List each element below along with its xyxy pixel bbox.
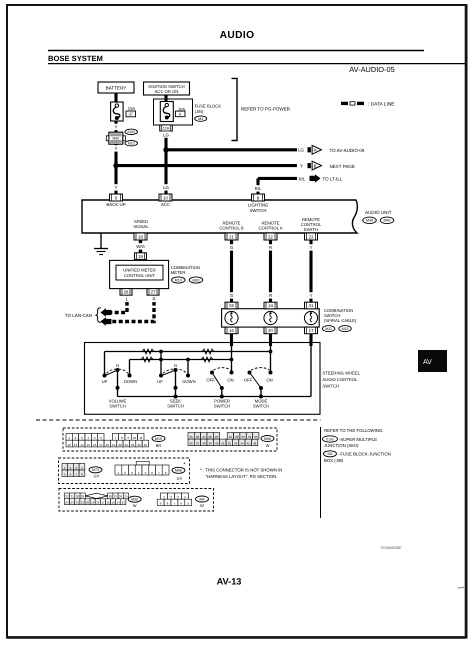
connector detail box row 1 xyxy=(63,428,277,451)
connector face M90 grid xyxy=(188,433,258,446)
battery supply box xyxy=(98,82,134,93)
svg-text:,: , xyxy=(378,218,379,223)
svg-text:17: 17 xyxy=(309,328,314,333)
svg-text:M40: M40 xyxy=(384,219,391,223)
refer-to-PG-POWER bracket xyxy=(232,78,238,140)
wire battery to fuse xyxy=(114,93,117,103)
svg-text:27: 27 xyxy=(151,290,156,295)
svg-text:Y: Y xyxy=(300,163,303,168)
svg-text:N: N xyxy=(174,363,177,368)
resistor R3 xyxy=(141,357,153,362)
svg-text:14: 14 xyxy=(268,303,273,308)
connector oval M15 xyxy=(152,436,165,442)
svg-text:TO LT-ILL: TO LT-ILL xyxy=(323,176,343,181)
svg-text:W: W xyxy=(200,503,204,508)
svg-text:W: W xyxy=(266,443,270,448)
wire SMJ to junction, Y xyxy=(114,144,117,167)
svg-text:26: 26 xyxy=(119,495,123,499)
svg-text:23: 23 xyxy=(71,501,75,505)
svg-text:UP: UP xyxy=(157,379,163,384)
combination meter pin 28 xyxy=(120,289,132,296)
wire rail1 down to volume up contact xyxy=(104,352,106,376)
connector oval M90 xyxy=(261,436,274,442)
svg-text:FUSE BLOCK: FUSE BLOCK xyxy=(195,103,222,108)
svg-text:42: 42 xyxy=(228,442,232,446)
svg-text:AV-13: AV-13 xyxy=(217,577,242,587)
svg-text:R: R xyxy=(269,245,272,250)
svg-text:LG: LG xyxy=(163,132,169,137)
fuse block J/B outline xyxy=(154,99,193,125)
svg-text:32: 32 xyxy=(65,495,69,499)
svg-text:18: 18 xyxy=(106,443,110,447)
svg-text:AUDIO CONTROL: AUDIO CONTROL xyxy=(323,377,359,382)
svg-text:Y: Y xyxy=(115,146,118,151)
svg-text:-FUSE BLOCK-JUNCTION: -FUSE BLOCK-JUNCTION xyxy=(339,451,391,456)
svg-text:10A: 10A xyxy=(178,106,185,111)
svg-text:LG: LG xyxy=(298,148,304,153)
svg-text:37: 37 xyxy=(128,112,133,117)
audio unit connector oval M39 xyxy=(363,217,377,224)
wire pin 16 into switch box xyxy=(230,334,233,346)
svg-text:44: 44 xyxy=(240,442,244,446)
svg-text:30: 30 xyxy=(76,495,80,499)
combination meter pin 19 xyxy=(135,253,147,260)
spiral cable pin 31 xyxy=(305,302,318,309)
data line R to LAN-CAN xyxy=(110,295,154,321)
svg-text:(J/B): (J/B) xyxy=(195,109,204,114)
svg-text:(SPIRAL CABLE): (SPIRAL CABLE) xyxy=(324,318,357,323)
svg-text:38: 38 xyxy=(202,442,206,446)
svg-text:13: 13 xyxy=(122,501,126,505)
svg-text:20: 20 xyxy=(268,328,273,333)
svg-text:SWITCH: SWITCH xyxy=(109,404,126,409)
spiral cable symbol xyxy=(225,311,238,324)
combination meter oval M20 xyxy=(189,277,203,283)
spiral cable symbol xyxy=(264,311,277,324)
svg-text:14: 14 xyxy=(80,443,84,447)
data line L to LAN-CAN xyxy=(110,295,127,312)
svg-text:R/L: R/L xyxy=(255,186,262,191)
svg-text:TKWM0638E: TKWM0638E xyxy=(380,546,402,550)
ground wire from audio unit xyxy=(100,233,102,249)
wire W/G pin 18 to pin 19 xyxy=(139,240,142,253)
svg-text:AUDIO: AUDIO xyxy=(220,30,255,41)
connector face M73 grid xyxy=(62,464,85,477)
svg-text:25: 25 xyxy=(190,435,194,439)
steering wheel audio control switch box xyxy=(85,343,321,415)
wire R pin 22 to spiral cable pin 14 xyxy=(269,240,272,302)
svg-text:24: 24 xyxy=(65,501,69,505)
svg-text:31: 31 xyxy=(309,303,314,308)
svg-text:SWITCH: SWITCH xyxy=(253,404,270,409)
svg-text:10: 10 xyxy=(133,436,137,440)
svg-text:25: 25 xyxy=(124,495,128,499)
connector oval M60 with asterisk xyxy=(172,467,185,473)
unified meter control unit box xyxy=(116,265,163,280)
svg-text:M39: M39 xyxy=(366,219,373,223)
connector face M20 grid with diamond xyxy=(65,493,86,499)
svg-text:M4: M4 xyxy=(328,452,333,456)
svg-text:28: 28 xyxy=(109,495,113,499)
svg-text:16: 16 xyxy=(106,501,110,505)
svg-text:DOWN: DOWN xyxy=(124,379,137,384)
audio unit pin 10 xyxy=(159,194,172,201)
svg-text:BATTERY: BATTERY xyxy=(106,86,127,91)
J/B output pin 12A xyxy=(160,125,173,131)
svg-text:NEXT PAGE: NEXT PAGE xyxy=(330,164,355,169)
svg-text:Y: Y xyxy=(115,185,118,190)
svg-text:,: , xyxy=(336,326,337,331)
svg-text:37: 37 xyxy=(196,442,200,446)
svg-text:15: 15 xyxy=(111,501,115,505)
audio unit pin 23 xyxy=(305,233,318,240)
arrow A to AV-AUDIO-09 xyxy=(308,145,322,154)
svg-text:JUNCTION (SMJ): JUNCTION (SMJ) xyxy=(324,443,359,448)
svg-text:32: 32 xyxy=(229,303,234,308)
rule under BOSE SYSTEM xyxy=(48,63,466,65)
combination switch oval M22 xyxy=(322,326,335,332)
svg-text:M90: M90 xyxy=(264,437,271,441)
svg-text:M19: M19 xyxy=(175,278,182,282)
svg-text:,: , xyxy=(187,278,188,283)
svg-text:STEERING WHEEL: STEERING WHEEL xyxy=(323,371,361,376)
svg-text:6: 6 xyxy=(179,112,182,117)
wire Y pin 23 to spiral cable pin 31 xyxy=(309,240,312,302)
svg-text:Y: Y xyxy=(115,125,118,130)
svg-text:ON: ON xyxy=(266,378,272,383)
section separator dashed line xyxy=(36,419,321,421)
wire LG from J/B to junction xyxy=(164,131,167,151)
svg-text:26: 26 xyxy=(196,435,200,439)
svg-text:20: 20 xyxy=(86,501,90,505)
volume switch SW1 xyxy=(103,374,107,378)
fuse block connector oval M4 xyxy=(195,116,207,121)
svg-text:COMBINATION: COMBINATION xyxy=(171,265,200,270)
svg-text:ACC OR ON: ACC OR ON xyxy=(155,89,179,94)
svg-text:M20: M20 xyxy=(131,498,138,502)
svg-text:R: R xyxy=(152,297,155,302)
fuse 10A xyxy=(160,102,173,122)
svg-text:23: 23 xyxy=(137,443,141,447)
wire rail2 down to volume down contact xyxy=(129,360,131,376)
svg-text:TO AV-AUDIO-09: TO AV-AUDIO-09 xyxy=(330,148,365,153)
svg-text:35: 35 xyxy=(254,435,258,439)
svg-text:CONTROL A: CONTROL A xyxy=(258,226,282,231)
svg-text:28: 28 xyxy=(124,290,129,295)
combination meter pin 27 xyxy=(147,289,159,296)
svg-text:43: 43 xyxy=(234,442,238,446)
connector face M4 grid xyxy=(161,493,189,499)
svg-text:22: 22 xyxy=(76,501,80,505)
seek switch SW2 xyxy=(159,374,163,378)
svg-text:36: 36 xyxy=(190,442,194,446)
connector face M15 grid xyxy=(66,434,149,447)
wire R/L down to lighting switch pin 8 xyxy=(256,178,259,195)
svg-text:19: 19 xyxy=(112,443,116,447)
svg-text:22: 22 xyxy=(131,443,135,447)
svg-text:DOWN: DOWN xyxy=(182,379,195,384)
svg-text:29: 29 xyxy=(81,495,85,499)
svg-text:13: 13 xyxy=(74,443,78,447)
connector oval M20 xyxy=(128,496,141,502)
svg-text:R: R xyxy=(269,293,272,298)
svg-text:15: 15 xyxy=(87,443,91,447)
svg-text:22: 22 xyxy=(268,234,273,239)
header rule under AUDIO xyxy=(48,50,424,52)
svg-text:19: 19 xyxy=(138,254,143,259)
svg-text:AV: AV xyxy=(423,359,432,366)
data line legend symbol xyxy=(341,102,364,105)
audio unit connector oval M40 xyxy=(380,217,394,224)
svg-text:EARTH: EARTH xyxy=(304,227,318,232)
connector label oval M15 xyxy=(125,141,138,146)
svg-text:Y: Y xyxy=(310,293,313,298)
audio unit pin 18 xyxy=(134,233,147,240)
svg-text:31: 31 xyxy=(229,435,233,439)
svg-text:15A: 15A xyxy=(128,106,136,111)
svg-text:SIGNAL: SIGNAL xyxy=(133,224,149,229)
spiral cable pin 16 xyxy=(225,327,238,334)
refer column divider xyxy=(320,427,322,518)
svg-text:"HARNESS LAYOUT", PG SECTION.: "HARNESS LAYOUT", PG SECTION. xyxy=(206,474,278,479)
svg-text:GY: GY xyxy=(94,474,100,479)
combination meter box xyxy=(110,260,169,288)
svg-text:19: 19 xyxy=(91,501,95,505)
wire pin16 through rails to power on contact xyxy=(231,346,233,373)
svg-text:21: 21 xyxy=(125,443,129,447)
junction node battery Y xyxy=(113,163,118,168)
svg-text:OFF: OFF xyxy=(244,378,253,383)
svg-text:CONTROL B: CONTROL B xyxy=(219,226,243,231)
connector label oval E105 xyxy=(125,129,138,134)
resistor R2 xyxy=(202,349,214,354)
svg-text:14: 14 xyxy=(117,501,121,505)
svg-text:10: 10 xyxy=(163,195,168,200)
connector face M60 grid xyxy=(136,461,149,465)
svg-text:17: 17 xyxy=(99,443,103,447)
svg-text:UNIFIED METER: UNIFIED METER xyxy=(123,268,156,273)
svg-text:BOX (J/B): BOX (J/B) xyxy=(324,458,344,463)
svg-text:40: 40 xyxy=(215,442,219,446)
svg-text:46: 46 xyxy=(253,442,257,446)
wire ignition to fuse block xyxy=(164,95,167,102)
svg-text:W: W xyxy=(133,503,137,508)
svg-text:M20: M20 xyxy=(193,278,200,282)
svg-text:33: 33 xyxy=(241,435,245,439)
wire rail 1 xyxy=(105,351,271,353)
svg-text:41: 41 xyxy=(221,442,225,446)
solid arrow to LT-ILL xyxy=(310,174,321,182)
svg-text:M4: M4 xyxy=(200,497,205,501)
wire fuse to SMJ connector, Y xyxy=(114,121,117,132)
svg-text:GY: GY xyxy=(177,476,183,481)
fuse 15A xyxy=(111,102,124,121)
svg-text:AV-AUDIO-05: AV-AUDIO-05 xyxy=(349,65,394,74)
svg-text:SWITCH: SWITCH xyxy=(250,208,267,213)
svg-text:LG: LG xyxy=(163,185,169,190)
connector detail box row 2 xyxy=(59,458,190,484)
svg-text:M73: M73 xyxy=(92,468,99,472)
arrow to LAN-CAN L xyxy=(100,308,111,316)
junction node LG xyxy=(163,147,168,152)
fuse number 37 box xyxy=(126,111,136,117)
svg-text:M60: M60 xyxy=(175,469,182,473)
combination switch oval M23 xyxy=(339,326,352,332)
audio unit pin 21 xyxy=(225,233,238,240)
svg-text:* : THIS CONNECTOR IS NOT SHOW: * : THIS CONNECTOR IS NOT SHOWN IN xyxy=(200,468,282,473)
svg-text:E105: E105 xyxy=(326,437,334,441)
svg-text:23: 23 xyxy=(309,234,314,239)
power switch SW3 xyxy=(210,371,214,375)
refer M4 oval xyxy=(324,451,337,457)
refer E105 SMJ oval xyxy=(323,436,338,442)
node seek up stub xyxy=(160,352,162,376)
scan artifact mark xyxy=(458,586,465,589)
wire pin 17 into switch box xyxy=(309,334,312,346)
svg-text:Y: Y xyxy=(310,245,313,250)
svg-text:39: 39 xyxy=(209,442,213,446)
wire LG down to audio unit pin 10 xyxy=(164,150,167,195)
svg-text:16: 16 xyxy=(93,443,97,447)
wire R/L horizontal run xyxy=(258,177,297,180)
ignition switch supply box xyxy=(144,82,190,95)
spiral cable symbol xyxy=(304,311,317,324)
svg-text:45: 45 xyxy=(247,442,251,446)
svg-text:AUDIO UNIT: AUDIO UNIT xyxy=(365,210,392,215)
SMJ inline connector E105/M15 xyxy=(106,132,125,144)
svg-text:UP: UP xyxy=(102,379,108,384)
svg-text:16: 16 xyxy=(229,328,234,333)
svg-text:R/L: R/L xyxy=(299,176,306,181)
svg-text:*: * xyxy=(183,462,186,468)
svg-text:OFF: OFF xyxy=(206,378,215,383)
svg-text:B: B xyxy=(314,163,317,168)
AV section tab xyxy=(418,350,447,372)
svg-text:SWITCH: SWITCH xyxy=(214,404,231,409)
svg-text:METER: METER xyxy=(171,270,186,275)
svg-text:M22: M22 xyxy=(325,327,332,331)
connector oval M73 xyxy=(89,467,102,473)
svg-text:M4: M4 xyxy=(198,117,203,121)
arrow B next page xyxy=(308,161,322,170)
svg-text:12A: 12A xyxy=(163,127,170,131)
svg-text:M23: M23 xyxy=(342,327,349,331)
svg-text:BOSE SYSTEM: BOSE SYSTEM xyxy=(48,54,103,63)
svg-text:M15: M15 xyxy=(155,437,162,441)
svg-text:24: 24 xyxy=(144,443,148,447)
fuse number 6 box xyxy=(175,111,185,117)
wire earth from pin 17 xyxy=(310,346,312,397)
svg-text:BACK UP: BACK UP xyxy=(106,202,125,207)
spiral cable pin 14 xyxy=(264,302,277,309)
svg-text:-SUPER MULTIPLE: -SUPER MULTIPLE xyxy=(339,437,377,442)
wire Y down to audio unit pin 6 xyxy=(114,166,117,195)
svg-text:31: 31 xyxy=(71,495,75,499)
svg-text:REFER TO THE FOLLOWING.: REFER TO THE FOLLOWING. xyxy=(324,428,383,433)
svg-text:A: A xyxy=(314,148,317,153)
wire rail 2 xyxy=(130,359,232,361)
svg-text:12: 12 xyxy=(68,443,72,447)
ground symbol xyxy=(94,248,108,250)
svg-text:: DATA LINE: : DATA LINE xyxy=(368,101,394,107)
wire LG horizontal run to arrow A xyxy=(166,148,297,151)
resistor R4 xyxy=(201,357,213,362)
connector detail box row 3 xyxy=(59,489,214,512)
spiral cable pin 17 xyxy=(305,327,318,334)
svg-text:34: 34 xyxy=(248,435,252,439)
svg-text:32: 32 xyxy=(235,435,239,439)
svg-text:28: 28 xyxy=(209,435,213,439)
audio unit U1 outline xyxy=(82,200,357,233)
svg-text:20: 20 xyxy=(118,443,122,447)
svg-text:TO LAN-CAN: TO LAN-CAN xyxy=(65,313,92,318)
combination meter oval M19 xyxy=(172,277,186,283)
svg-text:27: 27 xyxy=(202,435,206,439)
connector oval M4 xyxy=(196,496,209,502)
svg-text:E105: E105 xyxy=(127,130,135,134)
spiral cable pin 32 xyxy=(225,302,238,309)
audio unit pin 22 xyxy=(264,233,277,240)
svg-text:W/G: W/G xyxy=(136,244,145,249)
mode switch SW4 xyxy=(248,371,252,375)
svg-text:27: 27 xyxy=(114,495,118,499)
wire Y horizontal run to next page arrow xyxy=(116,164,297,167)
wire G pin 21 to spiral cable pin 32 xyxy=(230,240,233,302)
svg-text:BR: BR xyxy=(156,443,162,448)
svg-text:SWITCH: SWITCH xyxy=(167,404,184,409)
node seek down stub xyxy=(187,360,189,376)
svg-text:21: 21 xyxy=(81,501,85,505)
audio unit pin 8 xyxy=(252,194,265,201)
svg-text:11: 11 xyxy=(139,436,142,440)
svg-text:M90: M90 xyxy=(112,137,119,141)
resistor R1 xyxy=(142,349,154,354)
arrow to LAN-CAN R xyxy=(100,317,111,325)
svg-text:N: N xyxy=(116,363,119,368)
svg-text:29: 29 xyxy=(215,435,219,439)
svg-text:CONTROL UNIT: CONTROL UNIT xyxy=(124,273,156,278)
audio unit pin 6 xyxy=(110,194,123,201)
svg-text:ACC: ACC xyxy=(161,202,170,207)
svg-text:17: 17 xyxy=(101,501,105,505)
svg-text:18: 18 xyxy=(96,501,100,505)
svg-text:SWITCH: SWITCH xyxy=(323,383,340,388)
svg-text:REFER TO PG-POWER.: REFER TO PG-POWER. xyxy=(241,106,291,111)
svg-text:ON: ON xyxy=(227,378,233,383)
svg-text:21: 21 xyxy=(229,234,234,239)
combination switch spiral cable box xyxy=(222,309,320,327)
spiral cable pin 20 xyxy=(264,327,277,334)
wire pin20 to rail1 and mode on contact xyxy=(270,346,272,373)
svg-text:M15: M15 xyxy=(128,142,135,146)
wire pin 20 into switch box xyxy=(269,334,272,346)
svg-text:18: 18 xyxy=(138,234,143,239)
